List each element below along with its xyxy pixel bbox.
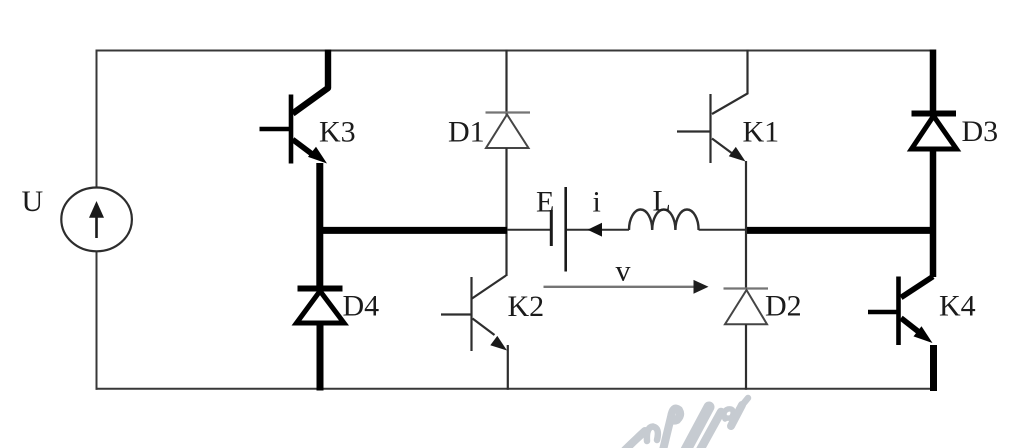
- transistor K4 base bar: [896, 277, 901, 346]
- svg-text:K1: K1: [743, 115, 780, 148]
- inductor L: [629, 209, 699, 230]
- transistor K3 base lead: [260, 127, 292, 132]
- wire K4 emitter to bottom rail: [930, 345, 937, 391]
- svg-text:K2: K2: [508, 290, 545, 323]
- transistor K3 base bar: [289, 95, 294, 164]
- battery E long plate: [564, 187, 567, 272]
- wire D1 top: [505, 50, 507, 115]
- svg-text:D4: D4: [343, 290, 380, 323]
- wire D1 to K2: [505, 148, 507, 276]
- wire middle thick left segment: [317, 227, 508, 234]
- diode D4 cathode bar: [298, 286, 343, 292]
- watermark: [625, 398, 748, 448]
- transistor K3 emitter with arrow: [293, 140, 327, 164]
- transistor K4 base lead: [868, 310, 899, 315]
- svg-text:D1: D1: [448, 115, 485, 148]
- transistor K2 base lead: [441, 313, 472, 315]
- svg-text:i: i: [593, 185, 601, 218]
- svg-text:K4: K4: [939, 290, 976, 323]
- svg-text:v: v: [616, 255, 631, 288]
- wire D4 to bottom rail: [317, 322, 324, 391]
- svg-text:D3: D3: [962, 115, 999, 148]
- transistor K2 base bar: [470, 277, 472, 351]
- diode D3 triangle: [912, 116, 957, 149]
- svg-text:L: L: [653, 185, 671, 218]
- diode D2 cathode bar: [724, 287, 769, 289]
- diode D1 triangle: [486, 115, 529, 149]
- wire K1 emitter to D2: [745, 161, 747, 289]
- diode D1 cathode bar: [486, 111, 531, 113]
- wire D2 to bottom rail: [745, 324, 747, 390]
- wire left column upper: [96, 50, 98, 189]
- transistor K2 emitter with arrow: [473, 319, 508, 351]
- transistor K1 base lead: [677, 130, 711, 132]
- voltage arrow v: [544, 280, 709, 294]
- wire left column lower: [96, 251, 98, 390]
- transistor K1 collector stub: [712, 50, 748, 115]
- wire inductor to right leg: [699, 229, 746, 231]
- voltage source U arrow: [89, 201, 104, 238]
- wire bottom rail: [96, 388, 934, 390]
- svg-text:U: U: [22, 185, 44, 218]
- transistor K1 base bar: [709, 94, 711, 163]
- transistor K3 collector stub: [293, 50, 328, 114]
- transistor K1 emitter with arrow: [712, 139, 746, 162]
- wire top rail: [96, 50, 934, 52]
- wire battery to inductor with current arrow i: [567, 223, 629, 237]
- wire K2 emitter to bottom rail: [507, 345, 509, 390]
- battery E short plate: [550, 210, 553, 246]
- transistor K2 collector diagonal: [472, 276, 506, 299]
- diode D2 triangle: [725, 290, 767, 324]
- transistor K4 emitter with arrow: [901, 318, 933, 343]
- wire D3 top: [930, 50, 937, 113]
- wire D3 to K4 collector: [930, 148, 937, 277]
- voltage source U circle: [61, 188, 132, 252]
- diode D3 cathode bar: [912, 111, 957, 117]
- svg-text:K3: K3: [319, 115, 356, 148]
- wire K3 emitter to D4 (thick left leg): [316, 163, 323, 289]
- svg-text:E: E: [536, 186, 554, 219]
- svg-text:D2: D2: [765, 290, 802, 323]
- transistor K4 collector diagonal: [901, 277, 933, 298]
- wire middle thin to battery: [507, 229, 550, 231]
- diode D4 triangle: [297, 291, 345, 323]
- wire middle thick right segment: [746, 227, 937, 234]
